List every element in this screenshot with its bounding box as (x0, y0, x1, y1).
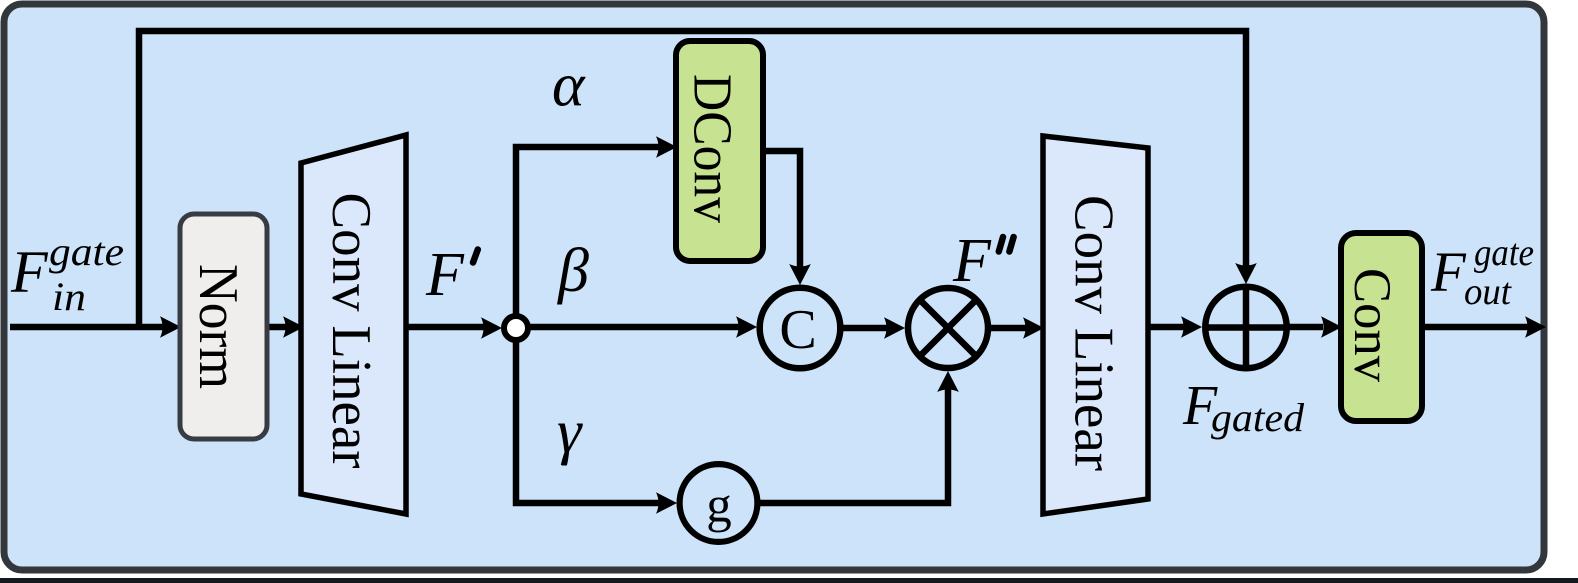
wire: Norm to Conv Linear 1 (267, 324, 286, 331)
svg-text:F: F (952, 227, 992, 295)
wire: g to multiply from below (758, 389, 948, 503)
svg-text:gate: gate (49, 229, 124, 274)
svg-text:DConv: DConv (683, 74, 744, 223)
svg-text:γ: γ (557, 398, 583, 466)
svg-text:F: F (1430, 241, 1467, 304)
svg-text:gate: gate (1474, 232, 1534, 274)
wire: gamma branch to g (516, 325, 659, 503)
bottom page rule (0, 578, 1578, 583)
add node (1205, 287, 1286, 368)
svg-text:β: β (557, 237, 589, 305)
wire: input F_in to Norm (10, 324, 163, 331)
wire: skip connection across the top (139, 31, 1246, 330)
label F_gated (1182, 375, 1305, 440)
svg-text:out: out (1464, 271, 1512, 313)
DConv box (676, 41, 763, 261)
wire: Conv Linear 1 to junction node (406, 324, 484, 331)
svg-text:α: α (552, 52, 586, 120)
svg-text:Conv Linear: Conv Linear (320, 193, 382, 469)
Norm box (180, 214, 267, 439)
multiply node (908, 288, 988, 368)
svg-text:in: in (52, 274, 86, 319)
wire: C to multiply (841, 325, 887, 332)
wire: alpha branch to DConv (516, 147, 659, 330)
Conv box (1341, 233, 1422, 421)
svg-text:F: F (425, 241, 465, 309)
junction node (504, 316, 528, 340)
svg-text:C: C (779, 299, 816, 361)
svg-text:g: g (706, 478, 732, 534)
concat node C (760, 288, 841, 369)
wire: DConv output elbow into C (762, 151, 800, 268)
wire: output F_out (1422, 324, 1528, 331)
wire: beta branch to C (530, 324, 739, 331)
label F_in^gate (10, 229, 124, 319)
svg-text:F: F (10, 239, 49, 305)
svg-text:Conv Linear: Conv Linear (1063, 195, 1125, 471)
gate node g (680, 464, 758, 542)
trapezoid Conv Linear 1 (301, 135, 406, 514)
svg-text:Conv: Conv (1343, 268, 1401, 382)
trapezoid Conv Linear 2 (1043, 136, 1148, 514)
svg-text:Norm: Norm (187, 264, 249, 389)
wire: add to Conv (1287, 324, 1323, 331)
wire: multiply to Conv Linear 2 (991, 325, 1026, 332)
svg-text:gated: gated (1211, 395, 1305, 440)
label F_out^gate (1430, 232, 1534, 313)
wire: Conv Linear 2 to add (1148, 324, 1184, 331)
